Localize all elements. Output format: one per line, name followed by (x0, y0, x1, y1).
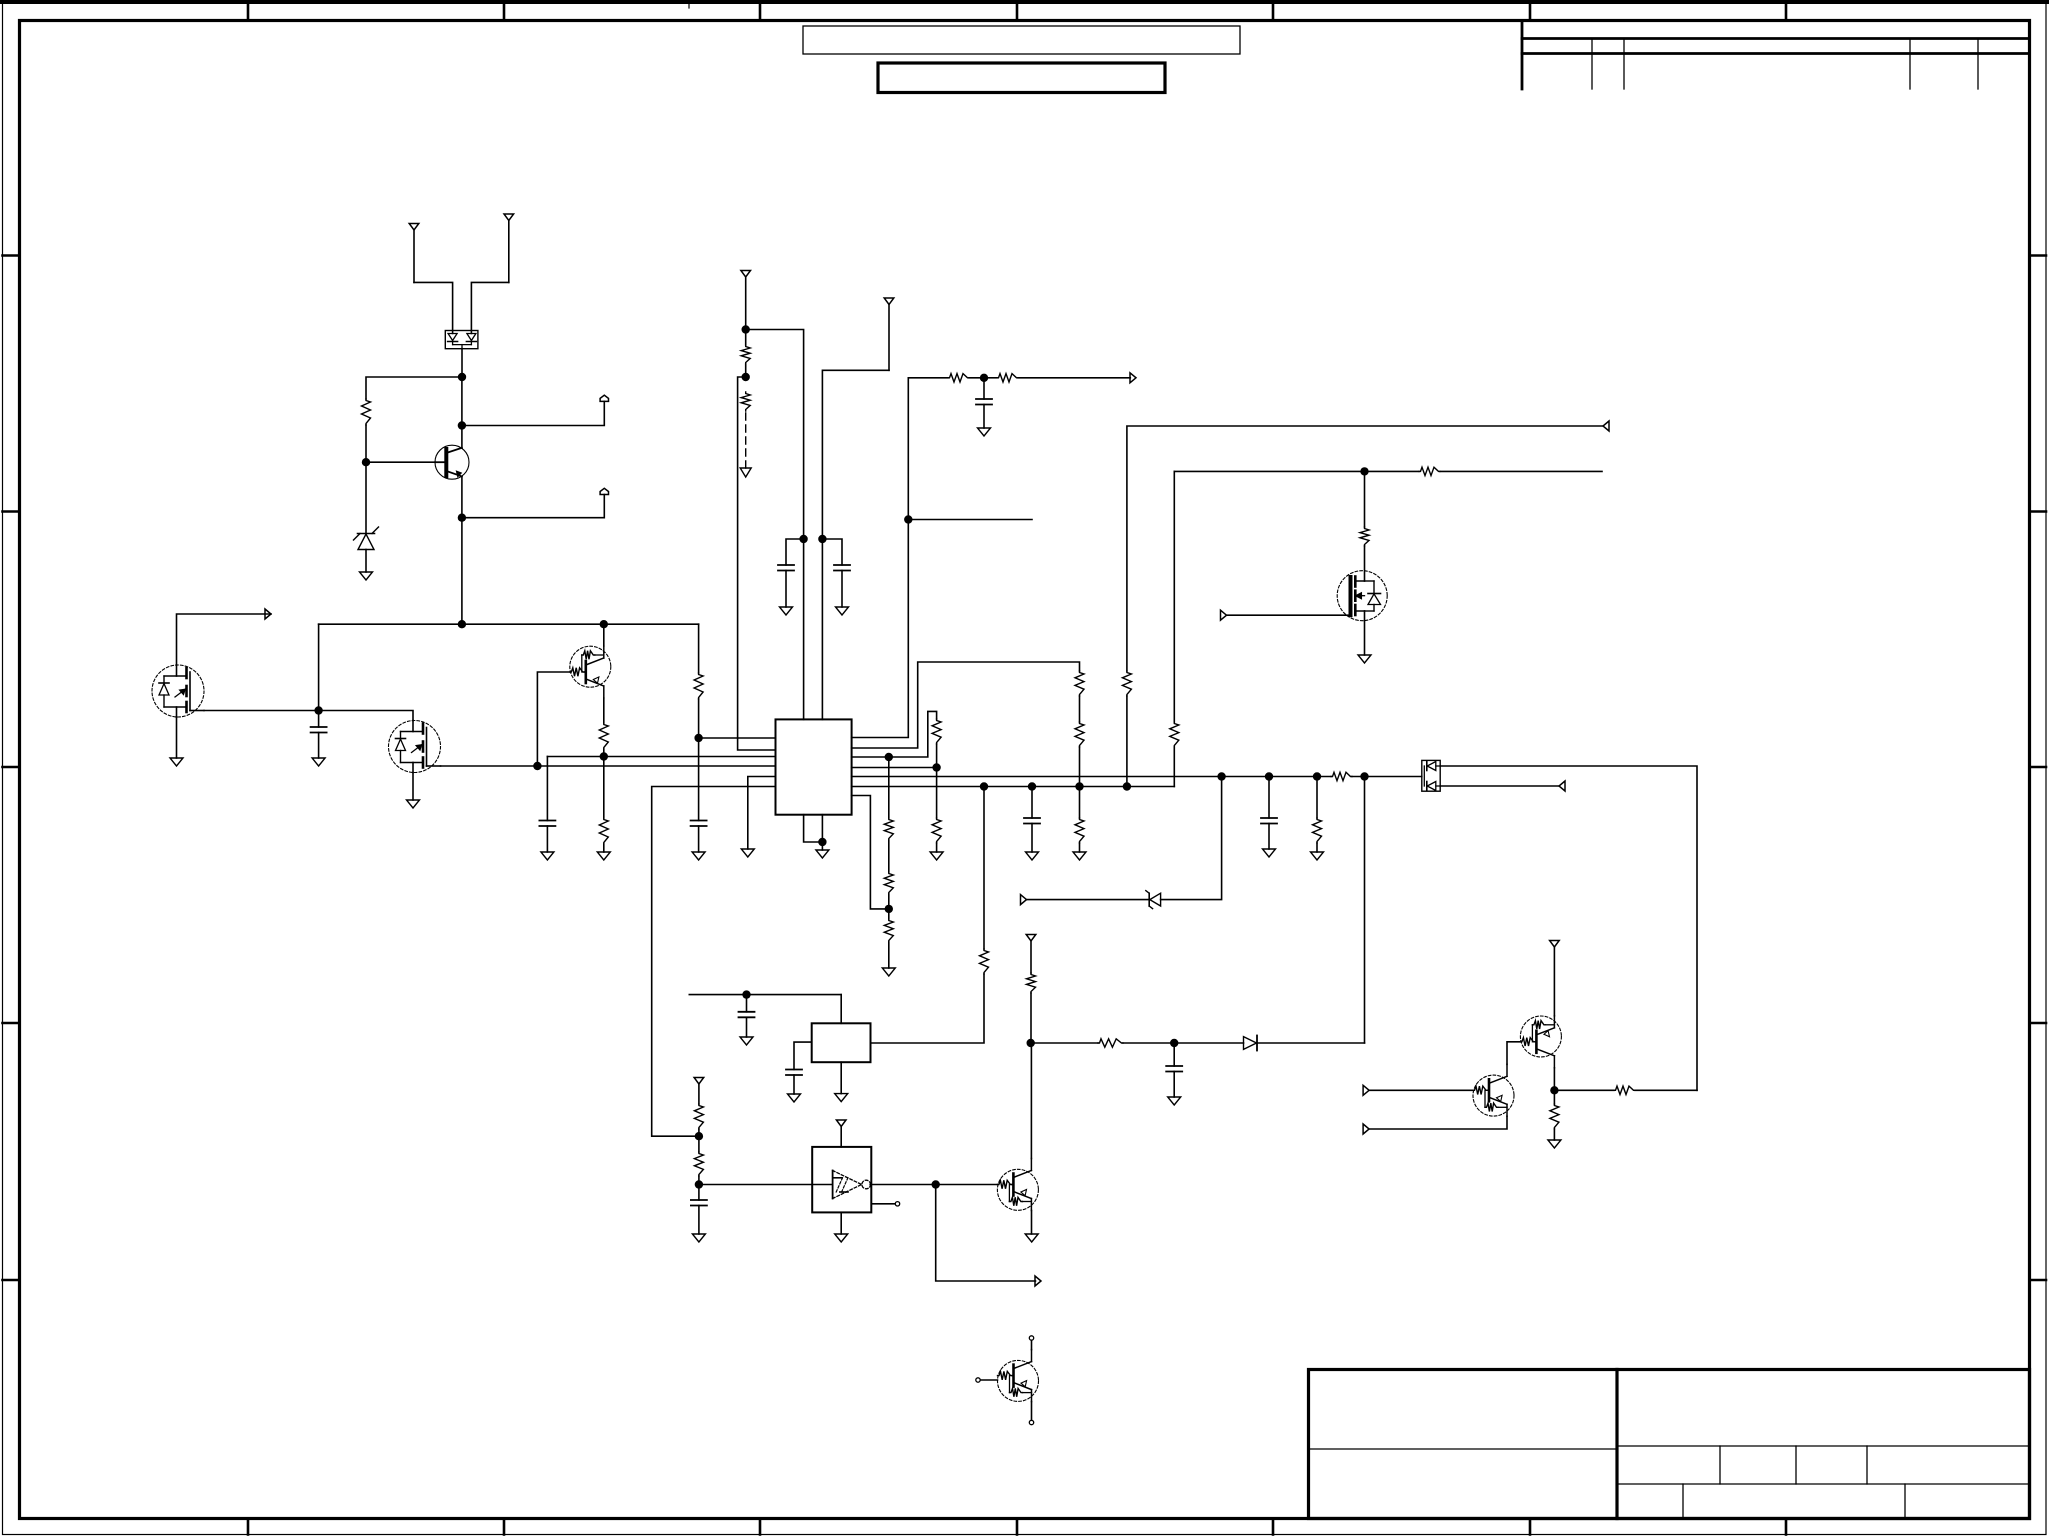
node AC junction (932, 1180, 940, 1188)
wire C2 to ground (546, 826, 548, 852)
ground below C10 (788, 1094, 801, 1102)
node K junction (742, 325, 750, 333)
ground below R12 (930, 852, 943, 860)
wire Q4 emitter to R2 (603, 698, 605, 723)
wire node J to U1 (699, 737, 776, 739)
wire net W to R19 (1365, 470, 1420, 472)
wire D5 top out (1440, 766, 1697, 1090)
wire node J down (698, 738, 700, 821)
wire R21 to net X (1127, 426, 1603, 671)
resistor R24 (1098, 1039, 1123, 1047)
node I junction (600, 752, 608, 760)
capacitor C10 (786, 1070, 802, 1076)
wire net Y (689, 994, 841, 996)
capacitor C12 (691, 1200, 707, 1206)
wire Q3 source to ground (412, 773, 414, 801)
capacitor C11 (1166, 1066, 1182, 1072)
wire net W (1174, 470, 1364, 472)
port J10 arrow (1603, 421, 1609, 431)
wire C9 to ground (746, 1017, 748, 1037)
wire node R down (888, 757, 890, 818)
wire node Z2 to D4 (1174, 1042, 1243, 1044)
wire node AC to port J15 (936, 1185, 1036, 1282)
resistor R6 (741, 392, 750, 411)
wire R13 to R14 (888, 840, 890, 872)
node AD junction (1550, 1086, 1558, 1094)
wire C7 to ground (1268, 824, 1270, 850)
resistor R28 (1614, 1086, 1635, 1094)
wire Q5 source to ground (1364, 611, 1366, 655)
node H junction (533, 762, 541, 770)
node AA junction (695, 1132, 703, 1140)
resistor R23 (1360, 527, 1369, 546)
wire bus V corner up (1173, 747, 1175, 787)
wire C12 to ground (698, 1206, 700, 1235)
node O junction (818, 838, 826, 846)
node P junction (980, 374, 988, 382)
resistor R16 series (1331, 772, 1352, 780)
wire R10 to bus (1079, 747, 1081, 787)
ground below R17 (1311, 852, 1324, 860)
capacitor C3 (691, 821, 707, 827)
wire U1 pin5 to ground (748, 777, 776, 850)
ground below D2 (360, 572, 373, 580)
wire R15 to ground (888, 942, 890, 968)
ground below Q3 (407, 800, 420, 808)
resistor R29 (1550, 1104, 1559, 1129)
resistor R7 (948, 374, 969, 382)
wire D4 to net U col (1257, 1042, 1365, 1044)
title text box thin (803, 26, 1240, 54)
wire node AA to R27 (698, 1136, 700, 1152)
wire U3 nc stub (871, 1203, 895, 1205)
wire U2 bottom pin (840, 1062, 842, 1093)
wire Q7 collector stub (1031, 1341, 1033, 1350)
capacitor C9 (739, 1012, 755, 1018)
wire horizontal net E (319, 623, 699, 625)
ground below R15 (882, 968, 895, 976)
resistor R27 (694, 1152, 703, 1176)
ground below C6 (978, 428, 991, 436)
wire Q9 emitter (1369, 1116, 1507, 1129)
ground below Q2 (170, 758, 183, 766)
ground below C9 (740, 1037, 753, 1045)
resistor R15 (884, 919, 893, 942)
wire pinC to R11 (889, 711, 937, 757)
node F junction (600, 620, 608, 628)
wire J1 to D1 (414, 282, 453, 333)
resistor R4 (694, 673, 703, 699)
wire node AB to C12 (698, 1185, 700, 1201)
resistor R17 (1313, 818, 1322, 843)
wire net Y to U2 (840, 995, 842, 1024)
node U2j junction (1265, 772, 1273, 780)
revision history table (1522, 21, 2030, 90)
transistor Q2 MOSFET (152, 665, 204, 717)
wire J2 to D1 (471, 282, 508, 333)
wire node P to C6 (983, 378, 985, 399)
node A junction (458, 373, 466, 381)
wire net E right corner (698, 624, 700, 673)
node U3j junction (1313, 772, 1321, 780)
wire C4 to ground (785, 571, 787, 608)
port J5 arrow (265, 609, 271, 619)
ground below R29 (1548, 1140, 1561, 1148)
wire node H up (537, 672, 569, 766)
node U1j junction (1217, 772, 1225, 780)
wire D1 output (461, 349, 463, 377)
resistor R25 (1027, 973, 1036, 993)
capacitor C2 (539, 821, 555, 827)
wire U1 pinC (852, 756, 889, 758)
wire Q8 collector to node AD (1553, 1068, 1555, 1091)
wire C10 to ground (793, 1075, 795, 1094)
wire net W to R23 (1364, 471, 1366, 527)
wire Q1 collector (461, 426, 463, 448)
wire R26 to node AA (698, 1129, 700, 1136)
transistor Q6 digital (997, 1159, 1038, 1211)
wire node K to U1 top pin1 (746, 330, 804, 720)
ground below U2 (835, 1094, 848, 1102)
IC U3 schmitt inverter (812, 1147, 871, 1213)
wire node D to port J4 (462, 495, 604, 518)
wire R29 to ground (1553, 1129, 1555, 1140)
wire U1 pinD (852, 767, 937, 769)
wire node Y1 to C9 (746, 995, 748, 1012)
resistor R12 (932, 818, 941, 843)
wire node P to R8 (984, 377, 997, 379)
node V4 junction (1123, 782, 1131, 790)
resistor R14 (884, 872, 893, 894)
wire U3 output (870, 1184, 998, 1186)
wire C11 to ground (1173, 1072, 1175, 1098)
wire node AB to U3 (699, 1184, 833, 1186)
resistor R19 (1419, 467, 1440, 475)
wire node U4 down (1364, 777, 1366, 1044)
wire node K to R5 (745, 330, 747, 346)
no-connect flag Q7 base (976, 1378, 980, 1382)
wire node G to Q3 drain (319, 711, 413, 721)
wire R4 to node J (698, 699, 700, 738)
ground below C2 (541, 852, 554, 860)
no-connect flag U3 (895, 1202, 899, 1206)
wire node G to C1 (318, 711, 320, 728)
capacitor C4 (778, 565, 794, 571)
wire bus net U (U1 pinE) (852, 776, 1331, 778)
resistor R11 (932, 719, 941, 744)
wire node M to C4 (786, 539, 804, 565)
no-connect flag Q7 emitter (1029, 1420, 1033, 1424)
wire bus net H (Q3 gate to U1) (441, 765, 776, 767)
resistor R3 (599, 818, 608, 844)
wire Q4 collector (603, 624, 605, 646)
wire C3 to ground (698, 826, 700, 852)
wire node S down (936, 768, 938, 819)
wire node A to R1 (366, 377, 462, 399)
wire Q7 emitter stub (1031, 1402, 1033, 1420)
resistor R22 (980, 949, 989, 974)
ground below C7 (1263, 849, 1276, 857)
wire res branch R17 (1316, 777, 1318, 819)
ground below U1 (816, 850, 829, 858)
node B junction (362, 458, 370, 466)
capacitor C5 (834, 565, 850, 571)
transistor Q1 NPN (435, 445, 469, 479)
node E junction (458, 620, 466, 628)
wire R14 to node T (888, 894, 890, 909)
resistor R1 (362, 399, 371, 425)
dual diode D5 (1422, 760, 1440, 791)
wire port J18 to Q9 base (1369, 1089, 1473, 1091)
wire bus net V (U1 pinF) (852, 786, 1175, 788)
wire U1 pin6 feedback (652, 787, 776, 1137)
wire node N to C5 (822, 539, 842, 565)
port J8 arrow (1130, 373, 1136, 383)
wire bus net I (to U1 pin) (547, 756, 775, 758)
node S junction (932, 763, 940, 771)
node V3 junction (1075, 782, 1083, 790)
wire R27 to node AB (698, 1176, 700, 1185)
ground below C8 (1026, 852, 1039, 860)
node C junction (458, 421, 466, 429)
wire R19 stub end (1440, 470, 1602, 472)
ground below C3 (692, 852, 705, 860)
border top thick bar (0, 0, 2049, 4)
capacitor C6 (976, 399, 992, 405)
wire node Z to R24 (1031, 1042, 1098, 1044)
title text box thick (878, 63, 1165, 93)
node Z junction (1027, 1039, 1035, 1047)
wire node AD down (1553, 1090, 1555, 1104)
wire C8 to ground (1031, 824, 1033, 853)
wire R22 to U2 out (871, 974, 985, 1043)
port J16 arrow (1559, 781, 1565, 791)
wire U2 left pin (794, 1042, 812, 1069)
port J18 arrow (1363, 1085, 1369, 1095)
port J17 input (1550, 941, 1560, 1016)
node U4j junction (1360, 772, 1368, 780)
wire Q7 base stub (981, 1379, 998, 1381)
node M junction (799, 535, 807, 543)
resistor R2 (599, 723, 608, 749)
wire cap branch C7 (1268, 777, 1270, 819)
wire R1 to node B (365, 425, 367, 462)
wire R23 to Q5 drain (1364, 546, 1366, 581)
wire Q5 gate (1227, 614, 1351, 616)
transistor Q8 digital (1520, 1016, 1561, 1068)
no-connect flag Q7 collector (1029, 1336, 1033, 1340)
node N junction (818, 535, 826, 543)
wire node C to node A (461, 377, 463, 426)
wire C8 branch (1031, 787, 1033, 819)
ground below C5 (836, 607, 849, 615)
node V1 junction (980, 782, 988, 790)
wire node I down (603, 757, 605, 819)
node Z2 junction (1170, 1039, 1178, 1047)
node J junction (694, 734, 702, 742)
wire C1 to ground (318, 733, 320, 759)
node Y1 junction (742, 990, 750, 998)
wire U1 bottom stubs (804, 815, 823, 842)
port J11 arrow (1221, 610, 1227, 620)
port J6 input (741, 271, 751, 330)
transistor Q5 NMOS (1337, 571, 1387, 621)
node W1 junction (1360, 467, 1368, 475)
IC U2 regulator (812, 1023, 871, 1062)
wire D5 bottom out (1440, 785, 1559, 787)
node R junction (885, 753, 893, 761)
wire Q2 gate net (204, 710, 319, 712)
wire node B to D2 (365, 462, 367, 533)
wire net E left drop (318, 624, 320, 710)
wire R2 to bus (603, 749, 605, 757)
port J14 input (836, 1120, 846, 1127)
wire node AD to R28 (1554, 1089, 1614, 1091)
wire R25 to node Z (1030, 993, 1032, 1043)
title block (1309, 1370, 2030, 1519)
transistor Q3 MOSFET (389, 721, 441, 773)
node Q junction (904, 515, 912, 523)
wire node Z to Q6 collector (1030, 1043, 1032, 1159)
resistor R13 (884, 818, 893, 840)
wire node D down (461, 518, 463, 625)
capacitor C8 (1024, 818, 1040, 824)
wire R24 to node Z2 (1123, 1042, 1174, 1044)
wire R7 to node P (969, 377, 984, 379)
wire R6 dashed stub (745, 413, 747, 468)
wire U3 vcc stub (840, 1127, 842, 1147)
wire U1 pinA up (852, 378, 948, 738)
wire node C to port J3 (462, 401, 604, 425)
node D junction (458, 514, 466, 522)
resistor R5 (741, 345, 750, 364)
diode D4 (1244, 1036, 1258, 1051)
port J4 pentagon (600, 488, 608, 494)
wire node L to U1 pin (738, 377, 776, 750)
wire C6 to ground (983, 405, 985, 429)
port J13 input (694, 1078, 704, 1105)
resistor R9 (1075, 671, 1084, 696)
wire node Z2 to C11 (1173, 1043, 1175, 1066)
resistor R10 (1075, 722, 1084, 747)
wire R11 to node S (936, 744, 938, 768)
wire C5 to ground (841, 571, 843, 608)
IC U1 (776, 719, 852, 814)
wire J7 to U1 top pin2 (822, 370, 889, 719)
wire Q1 emitter (461, 476, 463, 517)
wire R20 branch (1079, 787, 1081, 819)
wire bus I corner down (546, 757, 548, 821)
resistor R8 (997, 374, 1018, 382)
wire R3 to ground (603, 844, 605, 852)
wire Q6 emitter to ground (1031, 1211, 1033, 1235)
ground below R20 (1073, 852, 1086, 860)
wire U1 pinG to node T (852, 796, 889, 909)
wire R12 to ground (936, 843, 938, 852)
wire zener branch (1161, 777, 1222, 900)
resistor R21 (1122, 671, 1131, 696)
ground below C4 (780, 607, 793, 615)
wire node B to Q1 base (366, 461, 435, 463)
resistor R20 (1075, 818, 1084, 843)
capacitor C7 (1261, 818, 1277, 824)
ground below R3 (597, 852, 610, 860)
port J3 pentagon (600, 395, 608, 401)
node L junction (742, 373, 750, 381)
wire node T to R15 (888, 909, 890, 919)
wire R9 to R10 (1079, 696, 1081, 722)
wire Q2 source to ground (176, 717, 178, 758)
port J2 input top-left (504, 214, 514, 282)
zener diode D3 (1027, 891, 1161, 909)
wire R18 up to net W (1173, 471, 1175, 722)
dual diode D1 (445, 331, 478, 349)
transistor Q7 digital (998, 1350, 1039, 1402)
wire U1 pinB up (852, 662, 1080, 748)
capacitor C1 (311, 727, 327, 733)
wire stub net (908, 519, 1032, 521)
ground below C1 (312, 758, 325, 766)
wire R17 to ground (1316, 843, 1318, 852)
ground below Q5 (1358, 655, 1371, 663)
transistor Q9 digital (1473, 1064, 1514, 1116)
wire R28 to D5 column (1635, 1089, 1697, 1091)
wire col x1127 up (1126, 696, 1128, 787)
wire node O to ground (821, 842, 823, 850)
node V2 junction (1028, 782, 1036, 790)
node G junction (314, 706, 322, 714)
arrow marker below R6 (740, 468, 751, 477)
transistor Q4 digital (570, 646, 611, 698)
port J1 input top-left (409, 224, 419, 283)
wire R16 to D5 box (1352, 776, 1422, 778)
resistor R26 (694, 1104, 703, 1129)
ground left of U1 (741, 849, 754, 857)
wire Q2 drain to port J5 (177, 614, 272, 665)
wire Q8 base link (1507, 1042, 1520, 1065)
wire LDO feed (983, 787, 985, 950)
wire U3 gnd stub (840, 1212, 842, 1234)
node T junction (885, 905, 893, 913)
node AB junction (695, 1180, 703, 1188)
port J7 input (884, 298, 894, 370)
wire R8 to port J8 (1018, 377, 1130, 379)
wire R20 to ground (1079, 843, 1081, 852)
ground below C12 (692, 1234, 705, 1242)
resistor R18 (1170, 722, 1179, 747)
port J12 input (1026, 935, 1036, 974)
wire R5 to node L (745, 364, 747, 377)
port J15 arrow (1035, 1276, 1041, 1286)
zener diode D2 (354, 527, 379, 572)
port J9 arrow (1021, 895, 1027, 905)
port J19 arrow (1363, 1124, 1369, 1134)
ground below C11 (1168, 1097, 1181, 1105)
ground below Q6 (1025, 1234, 1038, 1242)
ground below U3 (835, 1234, 848, 1242)
